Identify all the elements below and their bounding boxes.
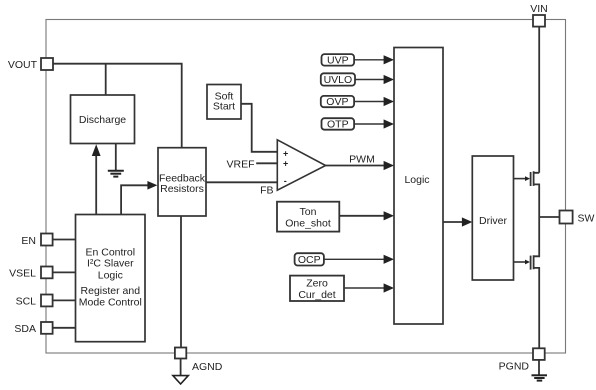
wire Ton One-shot to Logic with arrow xyxy=(339,211,394,220)
svg-text:Resistors: Resistors xyxy=(160,183,204,195)
svg-text:EN: EN xyxy=(21,235,36,247)
pin SDA xyxy=(14,322,52,335)
block En Control I2C Slaver Logic Register and Mode Control xyxy=(76,215,146,342)
svg-text:-: - xyxy=(284,176,287,186)
wire En Control to Feedback Resistors with arrow xyxy=(121,181,157,215)
svg-text:Start: Start xyxy=(213,100,235,112)
block Discharge xyxy=(71,95,135,144)
svg-text:Ton: Ton xyxy=(300,206,317,218)
block UVLO xyxy=(321,73,355,86)
block Feedback Resistors xyxy=(158,148,206,216)
wire VSEL pin xyxy=(53,271,76,273)
block Soft Start xyxy=(207,85,241,120)
pin AGND xyxy=(175,348,223,374)
wire OTP to Logic with arrow xyxy=(354,119,394,128)
block Driver xyxy=(472,156,513,280)
wire OVP to Logic with arrow xyxy=(354,97,394,106)
svg-text:SDA: SDA xyxy=(14,323,36,335)
svg-text:OVP: OVP xyxy=(326,96,348,108)
block Ton One-shot xyxy=(277,202,339,232)
wire EN pin xyxy=(53,239,76,241)
transistor Q2 low-side MOSFET xyxy=(514,217,540,348)
pin PGND xyxy=(499,348,545,372)
svg-text:Register and: Register and xyxy=(81,285,141,297)
svg-text:PGND: PGND xyxy=(499,361,530,373)
block OVP xyxy=(321,96,354,108)
pin SCL xyxy=(16,295,53,308)
svg-text:SW: SW xyxy=(578,213,595,225)
wire FB input xyxy=(206,181,277,183)
block OTP xyxy=(322,118,355,130)
wire Feedback Resistors to AGND xyxy=(180,216,182,348)
svg-text:+: + xyxy=(283,159,288,169)
svg-text:AGND: AGND xyxy=(192,361,223,373)
svg-text:PWM: PWM xyxy=(349,154,375,166)
block Zero Cur_det xyxy=(290,276,344,301)
pin EN xyxy=(21,234,52,247)
wire SDA pin xyxy=(53,327,76,329)
wire SW node xyxy=(539,216,559,218)
wire UVP to Logic with arrow xyxy=(354,55,394,64)
wire VOUT net xyxy=(53,64,182,148)
wire PWM output with arrow xyxy=(325,161,394,170)
IC boundary border xyxy=(46,20,566,354)
svg-text:UVP: UVP xyxy=(327,55,349,67)
wire En Control to Discharge with arrow xyxy=(92,144,101,214)
wire SCL pin xyxy=(53,299,76,301)
svg-text:OCP: OCP xyxy=(298,254,321,266)
svg-text:SCL: SCL xyxy=(16,296,37,308)
ground below PGND xyxy=(532,360,548,381)
svg-text:UVLO: UVLO xyxy=(324,74,353,86)
wire Zero Cur_det to Logic with arrow xyxy=(344,283,394,292)
svg-text:Mode Control: Mode Control xyxy=(79,297,142,309)
pin VSEL xyxy=(9,267,52,280)
svg-text:Zero: Zero xyxy=(306,278,328,290)
svg-text:Logic: Logic xyxy=(98,270,123,282)
wire UVLO to Logic with arrow xyxy=(355,75,394,84)
svg-text:VOUT: VOUT xyxy=(8,59,38,71)
svg-text:I²C Slaver: I²C Slaver xyxy=(87,258,134,270)
svg-text:Logic: Logic xyxy=(404,174,429,186)
wire VREF input xyxy=(256,162,277,164)
block OCP xyxy=(295,253,324,266)
block UVP xyxy=(322,54,355,67)
svg-text:OTP: OTP xyxy=(327,119,349,131)
ground below Discharge xyxy=(108,144,124,177)
svg-text:VSEL: VSEL xyxy=(9,268,36,280)
wire VIN to high-side FET drain xyxy=(538,27,540,173)
wire OCP to Logic with arrow xyxy=(324,255,394,264)
wire Logic to Driver with arrow xyxy=(443,217,472,226)
pin SW xyxy=(560,211,595,225)
svg-text:FB: FB xyxy=(260,185,273,197)
svg-text:Driver: Driver xyxy=(479,215,508,227)
svg-text:VIN: VIN xyxy=(530,3,548,15)
wire Soft Start to comparator xyxy=(241,104,277,152)
svg-text:Cur_det: Cur_det xyxy=(298,289,335,301)
op-amp comparator U1 xyxy=(277,140,325,190)
ground below AGND xyxy=(173,359,188,385)
block Logic xyxy=(394,48,443,325)
svg-text:VREF: VREF xyxy=(226,158,254,170)
pin VOUT xyxy=(8,58,53,71)
transistor Q1 high-side MOSFET xyxy=(514,171,540,217)
pin VIN xyxy=(530,3,548,27)
svg-text:+: + xyxy=(283,149,288,159)
svg-text:Discharge: Discharge xyxy=(79,114,126,126)
wire VOUT to Discharge xyxy=(105,64,107,95)
svg-text:One_shot: One_shot xyxy=(285,218,331,230)
